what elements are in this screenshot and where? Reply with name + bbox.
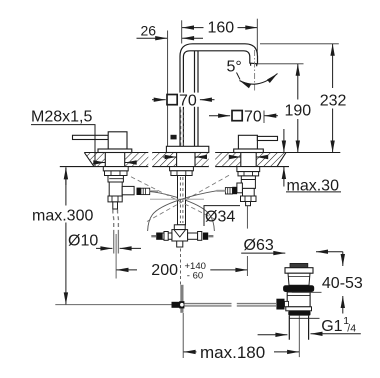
svg-text:70: 70 (244, 108, 262, 125)
svg-text:- 60: - 60 (187, 270, 203, 281)
svg-text:70: 70 (179, 92, 197, 109)
svg-text:M28x1,5: M28x1,5 (31, 109, 92, 126)
svg-text:190: 190 (285, 103, 312, 120)
svg-text:Ø63: Ø63 (244, 237, 274, 254)
svg-text:200: 200 (151, 262, 178, 279)
svg-text:max.180: max.180 (200, 343, 265, 362)
svg-text:40-53: 40-53 (322, 275, 363, 292)
svg-text:Ø34: Ø34 (205, 209, 235, 226)
svg-text:5°: 5° (227, 59, 242, 76)
svg-text:26: 26 (141, 22, 157, 38)
svg-text:G1: G1 (321, 318, 342, 335)
svg-text:Ø10: Ø10 (68, 232, 98, 249)
svg-text:max.300: max.300 (32, 208, 93, 225)
svg-text:160: 160 (208, 19, 235, 36)
svg-text:/4: /4 (347, 322, 356, 334)
svg-text:232: 232 (320, 92, 347, 109)
